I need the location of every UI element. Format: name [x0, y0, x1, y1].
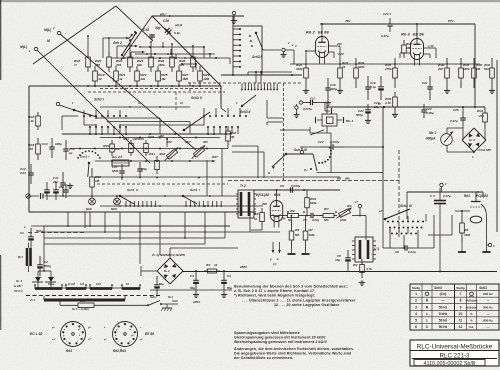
wire fan link3	[119, 116, 204, 126]
meter Me1 680uA	[426, 131, 453, 145]
svg-text:Gr 2: Gr 2	[164, 269, 170, 273]
wire long diagonal A	[60, 34, 196, 150]
wire amp mid bus	[326, 103, 385, 108]
svg-text:280V: 280V	[239, 265, 248, 269]
switch Sch3II lower arm	[241, 95, 256, 107]
svg-text:Sch3: Sch3	[80, 155, 88, 159]
svg-text:0,1µ: 0,1µ	[370, 85, 376, 89]
wire Rö1t leads	[455, 210, 495, 248]
capacitor C6 0,01u	[395, 245, 416, 254]
svg-text:12 . . . 20 siehe Lageplan Osz: 12 . . . 20 siehe Lageplan Oszillator	[274, 303, 340, 307]
resistor W9 1k	[281, 209, 302, 222]
node terminal 1	[282, 44, 297, 52]
capacitor C50 50u	[154, 276, 164, 296]
svg-text:RLC 221-3: RLC 221-3	[440, 353, 470, 360]
resistor W28 624	[179, 52, 195, 72]
svg-text:W41: W41	[477, 109, 484, 113]
switch Sch3I contact row A	[83, 115, 127, 117]
svg-text:W7: W7	[309, 228, 314, 232]
label 280V	[239, 265, 248, 269]
svg-text:220V: 220V	[192, 300, 201, 304]
svg-text:800 Hz: 800 Hz	[483, 292, 493, 296]
resistor W13 1M	[123, 137, 139, 156]
capacitor C23a	[381, 12, 393, 38]
svg-text:W4: W4	[347, 204, 352, 208]
svg-text:I: I	[103, 98, 104, 102]
wire out rail y190	[254, 189, 300, 191]
wire riser W24	[150, 41, 152, 52]
wire right margin vertical	[496, 60, 498, 232]
rectifier Gr2 B225	[157, 258, 183, 284]
switch Sch3I lower deck	[182, 188, 222, 207]
svg-text:68k: 68k	[324, 218, 329, 222]
svg-text:1M5: 1M5	[182, 77, 188, 81]
svg-text:C23 1: C23 1	[383, 12, 391, 16]
wire bridge peak2 left slope	[121, 16, 152, 60]
svg-text:C1: C1	[20, 231, 24, 235]
svg-text:O+: O+	[304, 168, 308, 172]
svg-text:5 kHz: 5 kHz	[439, 312, 448, 316]
wire dash separator y184	[97, 183, 228, 185]
svg-text:400k: 400k	[308, 233, 316, 237]
wire osc bus d	[100, 205, 263, 207]
wire rail corner down	[232, 16, 234, 26]
svg-text:M(L): M(L)	[44, 28, 52, 32]
ground terminal 1	[281, 52, 287, 58]
resistor W25 1M	[156, 66, 168, 86]
svg-text:DrL 2,5: DrL 2,5	[112, 155, 122, 159]
wire top of gr2	[170, 248, 238, 258]
wire dash separator y180	[228, 180, 399, 182]
svg-text:300: 300	[203, 140, 208, 144]
svg-text:50µ: 50µ	[159, 282, 164, 286]
svg-text:160k: 160k	[158, 63, 165, 67]
wire c26 drop	[462, 107, 464, 114]
svg-text:180k: 180k	[296, 67, 303, 71]
resistor W39 100k	[459, 58, 470, 88]
label 220V	[192, 300, 201, 304]
titleblock line2	[412, 353, 497, 360]
resistor W29 12M	[198, 66, 210, 86]
svg-text:Sch3: Sch3	[240, 110, 248, 114]
svg-text:330k: 330k	[464, 233, 471, 237]
capacitor C8 0,01u	[303, 213, 321, 222]
svg-text:Rö1: Rö1	[66, 349, 72, 353]
svg-text:1M: 1M	[230, 135, 235, 139]
capacitor C22 500u	[356, 104, 371, 118]
svg-text:4: 4	[415, 312, 417, 316]
wire top rail	[152, 15, 244, 17]
wire gr2 left	[141, 266, 232, 290]
svg-text:5,3p: 5,3p	[174, 31, 180, 35]
svg-text:1M: 1M	[476, 67, 481, 71]
svg-text:11 118: 11 118	[68, 283, 76, 286]
potentiometer W26 624	[165, 140, 192, 161]
svg-text:5: 5	[415, 318, 417, 322]
svg-text:Sch3: Sch3	[479, 286, 487, 290]
wire mid bus y137	[100, 137, 220, 139]
svg-text:Nü6: Nü6	[86, 207, 92, 211]
resistor W41 20k	[477, 107, 487, 128]
svg-text:6800: 6800	[112, 169, 119, 173]
capacitor C9 0,047u	[280, 184, 301, 193]
svg-text:0,47µ: 0,47µ	[381, 34, 389, 38]
wire tube heater leads	[270, 242, 281, 266]
svg-text:Zr 1: Zr 1	[29, 298, 36, 302]
node M(L)1 terminal	[20, 45, 38, 53]
svg-text:z. B. Sch 3 II 17 = zweite Ebe: z. B. Sch 3 II 17 = zweite Ebene, Kontak…	[234, 289, 314, 293]
ground mid amp	[294, 104, 300, 118]
svg-text:eff.Brücke: eff.Brücke	[466, 300, 478, 303]
capacitor C1 500u	[20, 226, 43, 248]
svg-text:W15: W15	[138, 137, 144, 141]
svg-text:180: 180	[95, 63, 100, 67]
wire Sch3III feed	[309, 127, 311, 133]
wire gr1 top	[38, 264, 51, 272]
wire riser W28	[192, 45, 194, 52]
wire riser W20	[108, 37, 110, 52]
svg-text:Rts 1: Rts 1	[346, 119, 354, 123]
wire amp mid bus2	[384, 106, 485, 108]
capacitor C18 300p	[325, 78, 337, 100]
capacitor C14 1u	[63, 140, 75, 160]
svg-text:*) Richtwert, wird beim Abglei: *) Richtwert, wird beim Abgleich festgel…	[234, 294, 315, 298]
svg-text:Sch3: Sch3	[127, 188, 135, 192]
svg-text:4×OA 685: 4×OA 685	[477, 148, 491, 152]
wire long diagonal B	[37, 50, 150, 163]
svg-text:10-0,3: 10-0,3	[14, 289, 23, 293]
label winding numbers	[48, 283, 129, 286]
socket Rö2 EF86	[113, 322, 155, 354]
switch Sch3II wiper arm	[249, 32, 263, 50]
svg-text:+2B: +2B	[158, 134, 164, 138]
svg-text:7k5: 7k5	[116, 63, 121, 67]
titleblock line3	[414, 360, 485, 367]
table cell text	[412, 286, 493, 329]
svg-text:124: 124	[80, 283, 85, 286]
svg-text:3: 3	[415, 305, 417, 309]
svg-text:Stellg: Stellg	[412, 286, 420, 290]
label W5 68k	[337, 177, 350, 181]
svg-text:10µ: 10µ	[335, 258, 340, 262]
svg-text:4,7k: 4,7k	[384, 101, 391, 105]
switch Sch3IV contact row B	[389, 227, 423, 235]
wire right drop x383	[382, 107, 384, 212]
wire mid bus y148	[70, 146, 228, 149]
resistor W33 2k	[338, 58, 349, 88]
svg-text:Sch1: Sch1	[150, 295, 157, 299]
wire osc rail y196	[55, 195, 238, 197]
resistor W42 51k	[484, 58, 494, 88]
svg-text:0,01: 0,01	[20, 171, 26, 175]
wire Rö3 anode	[416, 23, 435, 48]
svg-text:5M: 5M	[295, 233, 300, 237]
resistor W40 1M	[472, 58, 483, 88]
transformer Ü2	[236, 184, 256, 218]
wire rail 87V	[392, 19, 475, 24]
resistor W8	[251, 208, 264, 230]
svg-text:5k: 5k	[288, 218, 292, 222]
border top scan edge	[0, 0, 500, 2]
ground amp row	[303, 88, 495, 124]
wire left margin edge	[0, 0, 2, 330]
svg-text:II: II	[200, 96, 202, 100]
capacitor C13 100p	[42, 138, 62, 158]
svg-text:Rö 3: Rö 3	[401, 32, 410, 37]
svg-text:50µ: 50µ	[190, 286, 195, 290]
svg-text:2: 2	[415, 299, 417, 303]
wire arm to terminal	[263, 49, 281, 51]
svg-text:500µ: 500µ	[44, 264, 51, 268]
svg-text:11: 11	[459, 318, 463, 322]
resistor W3 68k	[320, 207, 337, 222]
resistor W16 10k	[103, 140, 120, 156]
wire drop x85	[84, 212, 86, 228]
label Gr1	[14, 279, 23, 293]
choke Dr1	[18, 243, 31, 272]
wire Sch2 riser 1	[103, 37, 129, 58]
node Sch2 contacts	[149, 46, 183, 65]
wire rail right drop	[474, 24, 476, 108]
svg-text:2k: 2k	[341, 65, 346, 69]
svg-text:300p: 300p	[330, 87, 337, 91]
switch Sch3IV contact row A	[387, 221, 424, 223]
socket Rö1 ECL82	[30, 322, 86, 354]
wire fan link1	[95, 117, 160, 134]
node top rail terminal	[232, 11, 235, 18]
wire amp in	[285, 41, 294, 64]
lamp Nü5	[111, 196, 120, 211]
wire W4 to trafo	[352, 208, 366, 240]
resistor W19 10	[93, 66, 105, 86]
svg-text:W9: W9	[290, 209, 295, 213]
svg-text:(1m): (1m)	[440, 292, 447, 296]
wire dash separator y83	[188, 82, 302, 84]
switch Sch3II contact row A	[203, 115, 247, 117]
svg-text:2× 1y B225/80-0,16/V25: 2× 1y B225/80-0,16/V25	[151, 253, 185, 257]
switch Sch3II ladder box	[233, 26, 262, 75]
svg-text:Sch3: Sch3	[94, 98, 102, 102]
resistor W36 4,7k	[384, 92, 397, 112]
node input jack	[26, 193, 43, 199]
svg-text:Rö2,Rö3: Rö2,Rö3	[113, 349, 126, 353]
wire Sch2 feed top	[163, 42, 176, 58]
svg-text:W13: W13	[123, 137, 129, 141]
node M terminal	[47, 39, 50, 43]
table contacts box	[410, 284, 499, 330]
note Benummerung text	[234, 285, 356, 308]
capacitor C16 5.3p	[163, 19, 183, 36]
svg-text:15V: 15V	[281, 217, 286, 221]
switch Sch3II arm	[180, 96, 238, 131]
svg-text:C 7: C 7	[430, 194, 435, 198]
wire left input	[30, 195, 55, 197]
node +2B	[158, 134, 168, 147]
capacitor C17 0,047u	[303, 97, 332, 115]
resistor W21 1k	[114, 66, 126, 86]
switch Sch3II comb	[241, 84, 278, 91]
svg-text:W3: W3	[324, 207, 329, 211]
svg-text:III: III	[304, 148, 307, 152]
resistor W24 62k	[137, 52, 153, 72]
wire bottom rail2	[31, 225, 230, 227]
svg-text:100k: 100k	[148, 135, 155, 139]
capacitor C4 50u	[221, 271, 232, 292]
svg-text:624*: 624*	[185, 140, 192, 144]
svg-text:8: 8	[460, 299, 462, 303]
svg-text:H 25/: H 25/	[14, 284, 22, 288]
chassis symbol	[161, 304, 172, 311]
resistor W38 200k	[437, 58, 449, 88]
svg-text:800 Hz: 800 Hz	[483, 318, 493, 322]
wire Sch2 riser 3	[131, 51, 145, 58]
svg-text:Dr1: Dr1	[18, 255, 23, 259]
rectifier Gr3 4xOA685	[462, 128, 491, 159]
svg-text:100: 100	[167, 140, 172, 144]
resistor W7 400k	[303, 222, 315, 249]
ground W7	[302, 249, 310, 254]
capacitor C20 10u	[374, 76, 384, 109]
potentiometer W30 300	[192, 140, 218, 163]
wire drop x250 right	[250, 212, 280, 232]
svg-text:0,47µ: 0,47µ	[450, 119, 458, 123]
svg-text:1: 1	[415, 292, 417, 296]
svg-text:12k: 12k	[140, 77, 145, 81]
wire divider bus	[29, 85, 221, 87]
resistor W35 270k	[384, 58, 397, 88]
svg-text:Rö 2: Rö 2	[306, 30, 315, 35]
wire Rö2 anode	[321, 23, 345, 56]
capacitor C15 30p	[143, 26, 161, 40]
wire rail 76V	[320, 19, 388, 24]
svg-text:eff.Brücke: eff.Brücke	[466, 306, 478, 309]
capacitor C12 0,01u	[20, 164, 34, 184]
resistor W1	[204, 263, 220, 273]
svg-text:Pkma: Pkma	[48, 283, 55, 286]
resistor W20 180	[95, 52, 111, 72]
switch Sch3I contact row B	[89, 126, 127, 128]
svg-text:1M: 1M	[406, 46, 411, 50]
svg-text:0,01µ: 0,01µ	[408, 250, 416, 254]
switch Sch1	[147, 295, 178, 306]
svg-text:C13: C13	[42, 142, 48, 146]
wire bottom long rail	[42, 225, 250, 264]
wire dash vertical x399	[398, 150, 400, 237]
svg-text:Gr 1: Gr 1	[16, 279, 22, 283]
svg-text:der Schaltteilliste zu entnehm: der Schaltteilliste zu entnehmen.	[234, 356, 293, 360]
resistor W31 1M	[226, 126, 237, 146]
tube Rö1 triode EC(L)82	[464, 192, 488, 223]
switch Sch3II lower label	[240, 110, 250, 114]
svg-text:624: 624	[179, 63, 184, 67]
wire box bottom	[29, 211, 256, 213]
svg-text:100p: 100p	[55, 142, 62, 146]
svg-text:Sch3: Sch3	[190, 188, 198, 192]
svg-text:Spannungsangaben sind Mittelwe: Spannungsangaben sind Mittelwerte	[234, 331, 300, 335]
svg-text:W16: W16	[103, 144, 109, 148]
svg-text:EC L 82: EC L 82	[30, 332, 42, 336]
svg-text:—: —	[487, 299, 490, 303]
switch Sch3IV stubs	[390, 214, 426, 234]
svg-text:E(CL)82: E(CL)82	[256, 193, 269, 197]
resistor W22 7k5	[116, 52, 132, 72]
switch Sch2 label	[113, 41, 122, 45]
wire Rö1 top	[261, 189, 278, 206]
svg-text:Si 1: Si 1	[168, 295, 173, 299]
svg-text:10: 10	[98, 77, 102, 81]
fuse Si1	[60, 299, 148, 308]
svg-text:Si 1 = 0,16A: Si 1 = 0,16A	[72, 307, 89, 311]
svg-text:10k: 10k	[115, 147, 120, 151]
relay Rts1	[310, 107, 354, 135]
svg-text:Si 1: Si 1	[80, 299, 85, 303]
switch Sch3III fan ladder	[272, 153, 317, 171]
wire Rö3 pins	[400, 48, 436, 58]
svg-text:1k: 1k	[254, 217, 258, 221]
wire Sch2 riser 2	[117, 45, 138, 58]
wire dash vertical x283	[283, 83, 285, 181]
wire amp lower bus	[280, 129, 310, 131]
svg-text:51k: 51k	[484, 67, 489, 71]
svg-text:µ(L): µ(L)	[159, 12, 166, 16]
svg-text:50µ: 50µ	[227, 286, 232, 290]
tube Rö3 EF86	[401, 32, 424, 66]
wire dash core Tr1	[26, 233, 162, 296]
diode Gr1 b	[45, 271, 56, 288]
ground lamp area	[67, 183, 73, 189]
svg-text:1,1k: 1,1k	[28, 119, 34, 123]
tube Rö2 EF86	[306, 30, 329, 64]
svg-text:C16: C16	[163, 19, 169, 23]
svg-text:1µ: 1µ	[69, 151, 73, 155]
resistor W34 820k	[354, 58, 365, 88]
svg-text:D: D	[268, 171, 270, 175]
choke DrL 2,5mH	[112, 155, 129, 166]
svg-text:W9: W9	[464, 228, 469, 232]
transformer Tr1 primary	[29, 296, 125, 302]
label Si1 value	[72, 307, 89, 311]
svg-text:300k: 300k	[159, 152, 166, 156]
svg-text:300: 300	[28, 147, 33, 151]
switch Sch2 arm	[121, 32, 137, 56]
svg-text:200: 200	[437, 67, 443, 71]
resistor W43 330k	[460, 214, 471, 242]
svg-text:100p: 100p	[141, 167, 147, 171]
svg-text:L: L	[426, 318, 428, 322]
socket Rö2 pins labels	[104, 327, 143, 343]
capacitor C11 22n	[52, 172, 66, 196]
svg-text:EF 86: EF 86	[413, 32, 424, 37]
resistor W11 1M	[90, 168, 102, 196]
svg-text:C3: C3	[190, 274, 194, 278]
switch Sch3III box	[304, 133, 383, 173]
transformer Ü3	[352, 237, 379, 262]
wire mid link y107	[100, 106, 190, 108]
resistor W23 12k	[135, 66, 147, 86]
svg-text:Sch3: Sch3	[400, 204, 408, 208]
svg-text:0,047µ: 0,047µ	[291, 184, 301, 188]
svg-text:270k: 270k	[384, 67, 392, 71]
capacitor C5 10u	[335, 250, 351, 272]
wire box left edge	[28, 86, 30, 212]
svg-text:50 Hz: 50 Hz	[439, 318, 448, 322]
switch Sch3II stubs	[204, 108, 240, 134]
svg-text:820k: 820k	[358, 65, 365, 69]
resistor W27 1M5	[177, 66, 189, 86]
switch Sch3I mid fan	[77, 150, 101, 177]
svg-text:C15: C15	[143, 28, 149, 32]
wire bridge right slope	[152, 16, 221, 86]
